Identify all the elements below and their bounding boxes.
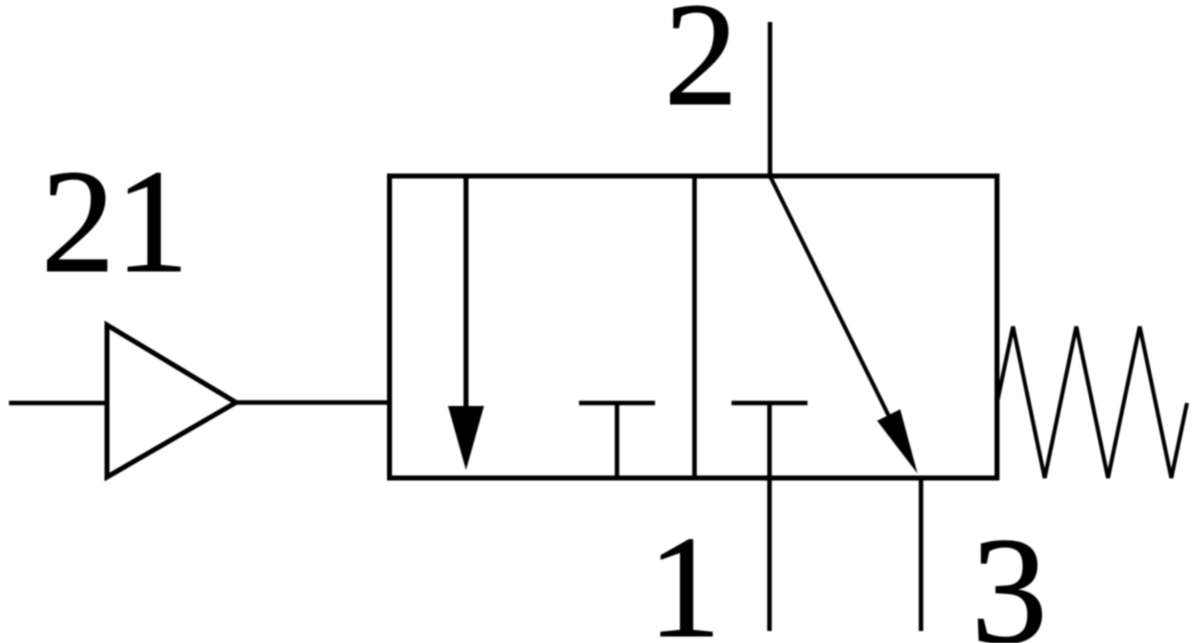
port 2 line (top) xyxy=(768,22,773,176)
left position flow arrowhead (down) xyxy=(448,406,484,470)
svg-text:21: 21 xyxy=(41,140,189,304)
pilot input wire (left stub) xyxy=(9,401,107,406)
right position flow arrowhead (down-right) xyxy=(877,409,917,473)
svg-text:1: 1 xyxy=(648,506,721,643)
port 1 line (bottom) xyxy=(767,478,772,631)
right position flow diagonal (port 2 to port 3, shaft) xyxy=(770,176,902,442)
port 3 line (bottom right) xyxy=(919,478,924,631)
right position blocked port T symbol: bar xyxy=(732,401,808,406)
position divider line xyxy=(692,176,697,478)
left position blocked port T symbol: stem xyxy=(615,403,620,478)
left position blocked port T symbol: bar xyxy=(579,401,655,406)
svg-text:2: 2 xyxy=(664,0,738,137)
pneumatic pilot triangle (symbol 21) xyxy=(107,325,236,477)
wire from pilot triangle to valve body xyxy=(236,400,390,405)
valve body outline (two-position box) xyxy=(390,176,998,478)
right position blocked port T symbol: stem xyxy=(767,403,772,478)
spring return (zigzag) xyxy=(997,327,1187,479)
left position flow line (vertical, shaft) xyxy=(464,176,469,410)
svg-text:3: 3 xyxy=(971,507,1048,643)
